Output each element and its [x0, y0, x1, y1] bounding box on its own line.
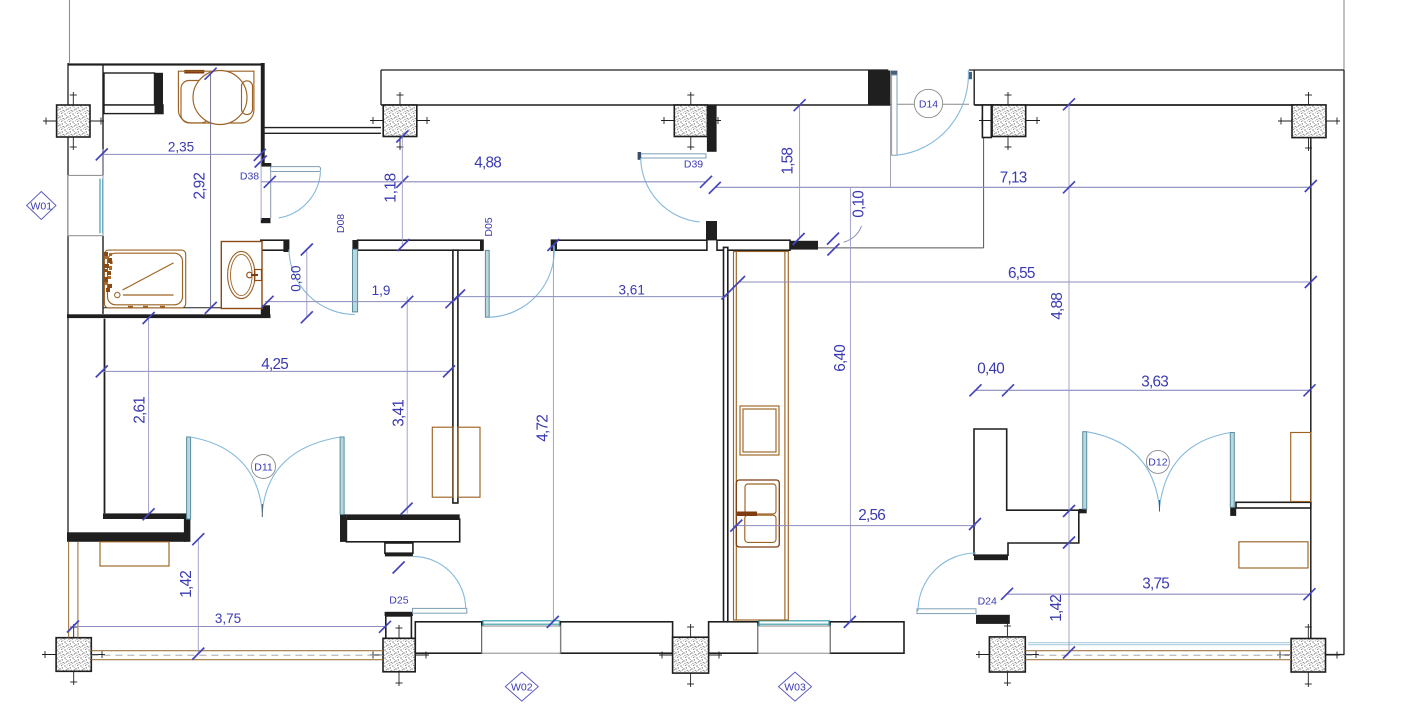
bathtub bottom line: [123, 294, 174, 296]
bottom band segment 1: [415, 622, 482, 653]
terrace wall band A: [67, 532, 186, 542]
wall right exterior inner: [1310, 105, 1312, 639]
svg-text:1,18: 1,18: [382, 173, 399, 203]
sink counter: [221, 242, 262, 309]
door D11 left leaf: [187, 437, 191, 519]
grid line left: [69, 0, 71, 63]
svg-text:3,63: 3,63: [1141, 374, 1169, 391]
wall living room left: [104, 319, 106, 514]
top band inner line: [381, 104, 891, 106]
hallway thin line horizontal: [818, 247, 984, 249]
D12 right jamb dark: [1230, 507, 1236, 516]
svg-text:1,42: 1,42: [1048, 594, 1065, 622]
svg-text:2,56: 2,56: [858, 507, 886, 524]
terrace edge bottom right: [1025, 650, 1291, 652]
svg-text:2,35: 2,35: [168, 139, 194, 154]
kitchen wall: [724, 247, 728, 621]
bedroom divider L-wall: [974, 429, 1079, 555]
door D11 right leaf: [340, 437, 344, 514]
dim 4,25: [96, 356, 455, 377]
wall stub column B5 to outer wall: [1325, 654, 1344, 656]
bathtub faucet scribbles: [104, 252, 113, 292]
door D14 leaf cap: [891, 71, 897, 76]
terrace edge left vertical: [68, 542, 70, 638]
D25 jamb lower dark edge: [385, 612, 413, 616]
wall left exterior inner face: [102, 65, 104, 175]
dim 2,56: [730, 507, 981, 532]
dim 1,58: [780, 99, 806, 245]
door D24 arc: [918, 553, 976, 611]
symbol W02 diamond: [505, 672, 538, 701]
svg-text:D08: D08: [335, 214, 347, 233]
sink faucet: [255, 270, 262, 281]
door D39 leaf: [641, 154, 706, 158]
dim 6,55: [733, 265, 1317, 288]
closet shelf lower: [104, 105, 163, 114]
svg-text:3,61: 3,61: [619, 282, 645, 297]
dim 6,40: [832, 187, 856, 628]
top band outer line right part: [969, 69, 1344, 71]
svg-text:W02: W02: [511, 681, 533, 693]
D39 upper pier dark: [707, 105, 717, 152]
svg-text:3,75: 3,75: [1142, 576, 1170, 593]
kitchen stove: [740, 406, 779, 455]
dim 2,35: [96, 139, 266, 161]
symbol D11 circle: [252, 455, 276, 479]
column B5: [1277, 624, 1340, 687]
D08 hinge jamb dark: [352, 240, 358, 250]
svg-text:D25: D25: [389, 595, 408, 607]
grid line right: [1343, 0, 1345, 70]
door D14 leaf: [892, 75, 897, 155]
D14 left jamb lower line: [890, 105, 892, 187]
window W01 glazing: [99, 179, 101, 234]
symbol D12 circle: [1146, 450, 1169, 473]
cabinet right of divider: [458, 427, 480, 497]
D12 left jamb dark: [1079, 509, 1087, 513]
toilet centerline: [210, 73, 212, 308]
toilet tank: [184, 70, 204, 74]
D24 jamb dark: [976, 615, 1010, 624]
wall left inner below window: [102, 236, 104, 314]
dim 2,92: [191, 68, 217, 314]
svg-text:4,88: 4,88: [1049, 292, 1066, 320]
door D38 leaf: [270, 167, 320, 172]
svg-text:W01: W01: [31, 200, 53, 212]
sink bowl inner: [231, 254, 253, 295]
svg-text:0,40: 0,40: [977, 361, 1005, 378]
symbol D14 circle: [914, 89, 942, 117]
column T1: [43, 92, 104, 150]
svg-text:D38: D38: [240, 171, 259, 183]
door D38 jamb stub: [261, 163, 271, 167]
door D24 leaf: [917, 609, 976, 614]
window W03 box: [758, 626, 830, 653]
D25 jamb lower box: [386, 616, 412, 639]
svg-text:D11: D11: [254, 461, 273, 473]
svg-text:0,80: 0,80: [288, 265, 303, 291]
corridor band dark end: [790, 241, 818, 250]
door D25 leaf: [413, 608, 467, 613]
pier left of T4 column: [982, 105, 991, 138]
column T3: [661, 92, 721, 150]
window W02 box: [482, 626, 561, 653]
dim 3,41: [391, 296, 414, 515]
dim 1,9: [262, 283, 458, 308]
toilet inner left: [181, 81, 209, 123]
door D14 hinge block: [969, 72, 973, 79]
toilet seat back: [242, 81, 253, 115]
extension line 2,35 left: [102, 149, 104, 236]
svg-text:2,92: 2,92: [191, 172, 208, 200]
door D12 left leaf: [1083, 432, 1087, 509]
door D11 center tail: [261, 504, 263, 517]
svg-text:1,42: 1,42: [178, 570, 195, 598]
toilet body: [178, 71, 254, 123]
wall bathroom top: [68, 63, 265, 65]
door D08 leaf: [353, 249, 358, 312]
svg-text:0,10: 0,10: [850, 190, 867, 218]
bathtub feet: [128, 306, 133, 308]
sink bowl outer: [228, 251, 255, 298]
column T4: [979, 92, 1040, 150]
svg-text:3,41: 3,41: [391, 399, 408, 427]
cabinet left of divider: [432, 427, 453, 497]
D39 lower jamb dark: [706, 221, 717, 240]
svg-text:W03: W03: [784, 681, 806, 693]
wall bathroom bottom: [67, 314, 271, 318]
terrace glazing right: [1028, 642, 1290, 644]
door D38 opening line: [270, 167, 272, 218]
wall left exterior outer face: [67, 63, 69, 536]
living bottom wall seg: [103, 513, 187, 519]
svg-text:7,13: 7,13: [1000, 170, 1028, 187]
column T2: [370, 92, 430, 150]
svg-text:2,61: 2,61: [132, 396, 149, 424]
door D05 leaf: [485, 250, 489, 317]
toilet bowl: [193, 71, 247, 125]
top band left edge: [380, 70, 382, 105]
svg-text:1,58: 1,58: [780, 147, 797, 175]
kitchen sink unit: [736, 480, 779, 547]
dim 7,13: [709, 170, 1317, 194]
svg-text:D12: D12: [1148, 457, 1167, 469]
bottom band segment 3: [709, 622, 758, 653]
bathtub inner: [108, 253, 183, 305]
column B1: [42, 624, 105, 685]
svg-text:D14: D14: [919, 98, 938, 110]
column B3: [659, 624, 722, 687]
corridor band segment D: [717, 240, 790, 250]
dim 4,88 top: [255, 154, 712, 220]
sofa bottom left: [100, 542, 169, 566]
D14 header thin line: [891, 103, 970, 105]
closet shelf upper: [104, 73, 155, 105]
svg-text:D24: D24: [978, 596, 997, 608]
D05 hinge jamb dark: [552, 240, 558, 251]
svg-text:6,40: 6,40: [832, 344, 849, 372]
svg-text:4,88: 4,88: [474, 154, 502, 171]
svg-text:6,55: 6,55: [1008, 265, 1035, 282]
symbol W03 diamond: [779, 672, 812, 701]
symbol W01 diamond: [27, 192, 56, 220]
door D12 arcs: [1087, 432, 1160, 508]
dim 3,75 left: [67, 611, 391, 633]
dim 1,42 left: [178, 533, 204, 659]
column T5: [1278, 92, 1340, 151]
D14 left wall cap filled: [868, 71, 891, 105]
bottom band segment 2: [560, 622, 672, 653]
L-wall dark foot: [974, 555, 1008, 560]
dim 2,61: [132, 312, 155, 520]
D11 left jamb: [184, 516, 191, 542]
hallway thin line vertical: [983, 138, 985, 248]
dim 3,63: [1008, 374, 1316, 397]
kitchen counter: [734, 252, 789, 621]
wall divider living dining: [453, 250, 458, 503]
dim extension D25 tick: [393, 562, 405, 574]
column B4: [976, 623, 1039, 686]
wall bathroom bottom inner line: [103, 307, 261, 309]
closet wall chunk: [155, 73, 164, 114]
svg-text:1,9: 1,9: [372, 283, 391, 298]
D14 right jamb edge: [973, 70, 975, 105]
column B2: [370, 625, 429, 686]
dim 4,72: [535, 239, 560, 628]
dim 0,80: [288, 244, 313, 324]
window W03 glazing: [758, 620, 830, 622]
dim 0,10: [827, 190, 867, 255]
door D38 arc: [279, 172, 321, 218]
wall bathroom right upper: [261, 63, 265, 166]
dim 0,40: [970, 361, 1015, 397]
wall right exterior outer: [1343, 70, 1345, 655]
D05 left jamb dark: [480, 240, 483, 250]
D08 left jamb dark: [283, 240, 288, 252]
wall link bathroom to top band: [265, 127, 382, 129]
bottom band segment 4: [830, 622, 904, 653]
door D39 arc: [641, 158, 700, 222]
D11 right jamb: [340, 514, 346, 542]
corridor band segment A: [261, 240, 289, 250]
bench bedroom2: [1239, 542, 1308, 568]
bedroom2 top wall band: [1236, 502, 1311, 508]
wall pier below D38: [261, 218, 271, 223]
svg-text:3,75: 3,75: [215, 611, 241, 626]
wardrobe right wall: [1291, 433, 1311, 502]
terrace edge bottom left: [91, 650, 383, 652]
door D39 leaf cap: [638, 152, 642, 160]
door D14 arc: [897, 70, 968, 155]
corridor band segment B: [358, 240, 483, 250]
top band outer line left part: [381, 69, 888, 71]
dim 3,75 right: [1001, 576, 1316, 601]
column cross end dashes: [45, 95, 1337, 684]
wall pier above sink: [261, 305, 270, 318]
living bottom thick band B top: [346, 514, 459, 519]
D25 jamb upper box: [385, 543, 413, 553]
svg-text:4,25: 4,25: [261, 356, 289, 373]
bathtub drain: [115, 292, 120, 297]
kitchen faucet: [737, 512, 757, 517]
window W01 frame: [68, 175, 103, 235]
bathtub outer: [104, 250, 185, 308]
dim 3,61: [453, 282, 734, 301]
bathtub diagonal: [123, 263, 174, 290]
corridor band segment C: [552, 240, 707, 250]
door D05 arc: [489, 244, 554, 317]
svg-text:D39: D39: [684, 159, 703, 171]
living bottom thick band B box: [346, 519, 459, 542]
window W02 glazing: [482, 620, 560, 622]
door D12 center tail: [1159, 500, 1161, 512]
dim 1,18: [382, 131, 409, 252]
top band inner line right of D14: [974, 104, 1311, 106]
D25 jamb upper dark edge: [385, 553, 413, 556]
door D25 arc: [413, 556, 466, 609]
door D12 right leaf: [1230, 433, 1234, 508]
door D11 arcs: [191, 437, 263, 512]
dim 4,88 right and 1,42 right: [1048, 98, 1075, 658]
svg-text:4,72: 4,72: [535, 414, 552, 442]
door D08 arc: [289, 250, 355, 315]
svg-text:D05: D05: [483, 217, 495, 236]
